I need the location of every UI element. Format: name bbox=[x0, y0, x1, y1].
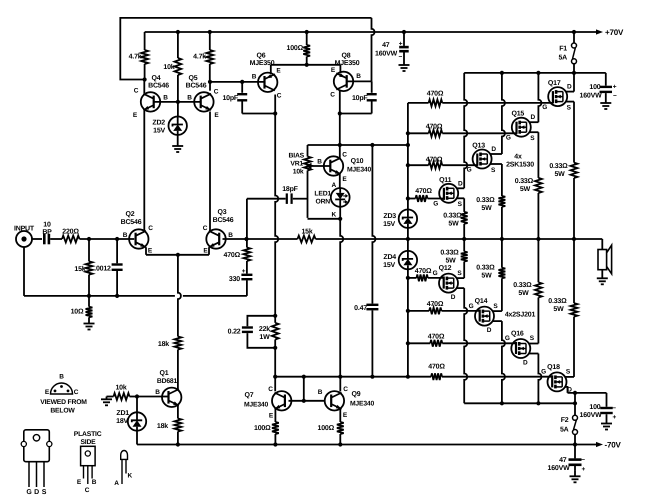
svg-text:PLASTIC: PLASTIC bbox=[74, 431, 102, 438]
ground below 100uF top cap bbox=[600, 98, 611, 110]
resistor 0.33R 5W Q16 bbox=[535, 239, 542, 298]
svg-text:C: C bbox=[134, 88, 139, 95]
svg-text:15k: 15k bbox=[301, 228, 312, 236]
svg-text:SIDE: SIDE bbox=[80, 439, 96, 446]
capacitor .0012 input bbox=[94, 239, 122, 296]
svg-text:B: B bbox=[187, 95, 192, 102]
capacitor 10pF Q8 bbox=[340, 81, 377, 113]
wire 18pF to Q3 base bbox=[247, 199, 286, 239]
wire Q11 drain to +rail bbox=[457, 73, 468, 188]
svg-text:D: D bbox=[451, 294, 456, 301]
wire Q12 drain to -bus bbox=[456, 288, 467, 403]
svg-text:B: B bbox=[59, 374, 64, 381]
ground below speaker bbox=[597, 270, 608, 285]
wire bias box top bbox=[308, 143, 408, 147]
wire Q1 base bbox=[135, 394, 169, 398]
capacitor 10pF Q6 bbox=[222, 82, 277, 116]
svg-text:−: − bbox=[398, 53, 402, 60]
svg-text:Q4: Q4 bbox=[152, 75, 161, 82]
svg-text:100: 100 bbox=[589, 84, 600, 91]
svg-text:18pF: 18pF bbox=[282, 186, 298, 193]
wire Q3 base / output rail left part bbox=[223, 237, 249, 241]
transistor Q1 BD681 bbox=[155, 370, 181, 407]
svg-text:10pF: 10pF bbox=[222, 95, 238, 102]
wire +70V sub-rail (drains) bbox=[464, 71, 606, 75]
ground below 47uF bottom cap bbox=[570, 470, 581, 482]
resistor 18k upper bbox=[158, 337, 181, 350]
svg-text:Q2: Q2 bbox=[126, 211, 135, 218]
resistor 100R VAS emitters bbox=[287, 32, 311, 65]
label 0.33R Q15 bbox=[515, 178, 534, 193]
MOSFET Q17 2SK1530 bbox=[542, 80, 572, 111]
wire output to speaker bbox=[601, 239, 603, 250]
svg-text:47: 47 bbox=[382, 42, 390, 49]
resistor 15k feedback bbox=[247, 228, 316, 243]
transistor Q10 MJE340 bbox=[317, 152, 371, 184]
svg-text:+: + bbox=[613, 84, 617, 91]
wire Q15 source to 0.33R bbox=[529, 132, 538, 178]
label 0.33R Q16 bbox=[513, 282, 532, 297]
resistor 470R gate Q18 bbox=[408, 363, 553, 380]
svg-text:G: G bbox=[469, 303, 474, 310]
svg-text:D: D bbox=[458, 180, 463, 187]
svg-text:MJE340: MJE340 bbox=[347, 167, 372, 174]
wire Q11 source to 0.33R bbox=[457, 198, 465, 212]
wire gate bus P bbox=[406, 276, 410, 379]
transistor Q3 BC546 bbox=[203, 209, 234, 255]
wire bias bottom to Q9 collector (hops output rail) bbox=[340, 219, 343, 377]
MOSFET Q13 2SK1530 bbox=[467, 143, 497, 174]
svg-text:100Ω: 100Ω bbox=[287, 45, 304, 52]
label 0.33R Q12 bbox=[440, 250, 459, 265]
svg-text:B: B bbox=[163, 95, 168, 102]
MOSFET Q15 2SK1530 bbox=[506, 111, 536, 142]
svg-text:160VW: 160VW bbox=[580, 412, 603, 419]
svg-text:Q5: Q5 bbox=[189, 75, 198, 82]
svg-text:10pF: 10pF bbox=[352, 95, 368, 102]
capacitor 100uF 160VW bottom bbox=[580, 393, 617, 421]
drawing TO-126 package bbox=[74, 431, 102, 494]
svg-text:ORN: ORN bbox=[315, 199, 330, 206]
svg-text:470Ω: 470Ω bbox=[428, 363, 445, 370]
svg-text:ZD1: ZD1 bbox=[116, 410, 129, 417]
zener ZD4 15V bbox=[383, 239, 417, 278]
svg-text:LED1: LED1 bbox=[314, 191, 331, 198]
svg-text:C: C bbox=[330, 92, 335, 99]
label 0.33R Q11 bbox=[443, 213, 462, 228]
ground below 10R bbox=[84, 317, 95, 329]
svg-text:Q16: Q16 bbox=[511, 331, 524, 338]
resistor 0.33R 5W Q11 bbox=[461, 212, 468, 239]
svg-text:A: A bbox=[332, 182, 337, 189]
svg-text:A: A bbox=[114, 480, 119, 487]
wire Q16 drain to -bus bbox=[529, 354, 542, 404]
label 0.33R Q18 bbox=[548, 298, 567, 313]
svg-text:C: C bbox=[74, 389, 79, 396]
svg-text:5W: 5W bbox=[448, 221, 459, 228]
resistor 470R gate Q15 bbox=[408, 123, 517, 136]
resistor 470R gate Q11 bbox=[408, 188, 445, 202]
svg-text:+: + bbox=[612, 414, 616, 421]
svg-text:G: G bbox=[433, 270, 438, 277]
svg-text:470Ω: 470Ω bbox=[427, 90, 444, 97]
svg-text:BIAS: BIAS bbox=[289, 153, 305, 160]
capacitor 100uF 160VW top bbox=[580, 73, 617, 100]
wire ground return bbox=[24, 247, 247, 298]
svg-text:220Ω: 220Ω bbox=[62, 229, 79, 236]
capacitor 10uF BP input bbox=[42, 222, 52, 245]
resistor 10k rail to bases bbox=[163, 32, 181, 102]
svg-text:4.7k: 4.7k bbox=[193, 53, 206, 61]
svg-text:Q17: Q17 bbox=[548, 80, 561, 87]
drawing TO-92 viewed from below bbox=[40, 374, 87, 415]
svg-text:D: D bbox=[531, 114, 536, 121]
ground at 10k bbox=[101, 397, 114, 406]
svg-text:C: C bbox=[277, 93, 282, 100]
wire Q10 emitter to LED bbox=[339, 175, 341, 189]
svg-text:Q7: Q7 bbox=[245, 392, 254, 399]
wire Q3 collector up to Q5 emitter bbox=[209, 112, 211, 232]
svg-text:5W: 5W bbox=[481, 205, 492, 212]
svg-text:5A: 5A bbox=[558, 54, 567, 61]
wire Q17 source to 0.33R bbox=[566, 102, 575, 163]
potentiometer VR1 10k BIAS bbox=[289, 145, 311, 218]
svg-text:K: K bbox=[128, 473, 133, 480]
transistor Q4 BC546 bbox=[133, 75, 169, 119]
speaker bbox=[598, 245, 612, 274]
svg-text:.0012: .0012 bbox=[94, 265, 111, 272]
svg-text:4x2SJ201: 4x2SJ201 bbox=[505, 312, 536, 319]
svg-text:MJE340: MJE340 bbox=[244, 402, 269, 409]
wire Q9 collector up bbox=[338, 375, 342, 392]
svg-text:10k: 10k bbox=[293, 169, 304, 176]
transistor Q6 MJE350 bbox=[250, 53, 282, 100]
svg-text:B: B bbox=[155, 389, 160, 396]
-70V arrow and label bbox=[596, 441, 621, 450]
svg-text:10k: 10k bbox=[163, 63, 174, 71]
resistor 470R gate Q13 bbox=[408, 157, 478, 169]
svg-text:B: B bbox=[123, 232, 128, 239]
zener ZD2 15V bbox=[152, 102, 187, 146]
fuse F2 5A bbox=[560, 403, 578, 444]
svg-text:BELOW: BELOW bbox=[50, 408, 75, 415]
svg-text:18V: 18V bbox=[116, 418, 128, 425]
MOSFET Q14 2SJ201 bbox=[469, 298, 499, 334]
svg-text:100Ω: 100Ω bbox=[254, 425, 271, 432]
svg-text:D: D bbox=[487, 327, 492, 334]
svg-text:D: D bbox=[567, 386, 572, 393]
svg-text:B: B bbox=[252, 74, 257, 81]
resistor 15k input shunt bbox=[74, 239, 92, 296]
svg-text:VIEWED FROM: VIEWED FROM bbox=[40, 399, 87, 406]
svg-text:4x: 4x bbox=[514, 154, 522, 161]
resistor 10k Q1 base bbox=[114, 384, 138, 400]
svg-text:100: 100 bbox=[589, 404, 600, 411]
LED LED1 ORN bbox=[314, 182, 349, 219]
svg-text:ZD2: ZD2 bbox=[152, 120, 165, 127]
svg-text:Q10: Q10 bbox=[351, 158, 364, 165]
svg-text:0.47: 0.47 bbox=[354, 305, 367, 312]
svg-text:5A: 5A bbox=[560, 426, 569, 433]
svg-text:G: G bbox=[433, 201, 438, 208]
svg-text:0.33Ω: 0.33Ω bbox=[548, 298, 567, 305]
wire 220R to Q2 base bbox=[80, 237, 135, 241]
svg-text:470Ω: 470Ω bbox=[427, 301, 444, 308]
svg-text:BC546: BC546 bbox=[148, 83, 169, 90]
resistor 470R gate Q16 bbox=[408, 334, 517, 347]
svg-text:-70V: -70V bbox=[605, 441, 622, 450]
resistor 0.33R 5W Q12 bbox=[461, 239, 468, 262]
svg-text:47: 47 bbox=[559, 457, 567, 464]
svg-text:470Ω: 470Ω bbox=[426, 123, 443, 130]
fuse F1 5A bbox=[558, 32, 576, 73]
label 0.33R Q13 bbox=[476, 197, 495, 212]
svg-text:G: G bbox=[541, 369, 546, 376]
svg-text:BC546: BC546 bbox=[186, 83, 207, 90]
svg-text:ZD4: ZD4 bbox=[383, 254, 396, 261]
wire cap to R 220 bbox=[50, 238, 62, 240]
resistor 220R bbox=[62, 229, 80, 243]
resistor 0.33R 5W Q14 bbox=[499, 239, 506, 278]
svg-text:0.33Ω: 0.33Ω bbox=[443, 213, 462, 220]
wire VR1 wiper to Q10 base bbox=[306, 163, 331, 169]
wire Q2 collector up to Q4 emitter bbox=[143, 111, 145, 232]
svg-text:+: + bbox=[242, 268, 246, 275]
svg-text:22k: 22k bbox=[259, 325, 270, 333]
svg-text:18k: 18k bbox=[158, 340, 169, 348]
wire Q7 base loop bbox=[275, 376, 304, 378]
svg-text:10: 10 bbox=[43, 222, 51, 229]
svg-text:INPUT: INPUT bbox=[14, 226, 35, 233]
svg-text:Q11: Q11 bbox=[439, 177, 452, 184]
svg-text:D: D bbox=[34, 489, 39, 496]
capacitor 330uF feedback bbox=[229, 268, 252, 296]
MOSFET Q18 2SJ201 bbox=[541, 364, 572, 393]
svg-text:470Ω: 470Ω bbox=[415, 188, 432, 195]
svg-text:+: + bbox=[581, 466, 585, 473]
svg-text:Q9: Q9 bbox=[352, 391, 361, 398]
svg-text:B: B bbox=[318, 389, 323, 396]
input jack J1 bbox=[14, 226, 35, 248]
resistor 470R feedback shunt bbox=[224, 239, 251, 274]
capacitor 18pF bbox=[282, 186, 307, 204]
svg-text:BD681: BD681 bbox=[157, 378, 178, 385]
svg-text:Q13: Q13 bbox=[472, 143, 485, 150]
resistor 470R gate Q12 bbox=[408, 268, 444, 281]
svg-text:K: K bbox=[332, 212, 337, 219]
svg-text:C: C bbox=[343, 386, 348, 393]
svg-text:Q6: Q6 bbox=[257, 53, 266, 60]
svg-text:D: D bbox=[491, 146, 496, 153]
svg-text:470Ω: 470Ω bbox=[415, 268, 432, 275]
svg-text:−: − bbox=[612, 405, 616, 412]
transistor Q8 MJE350 bbox=[330, 53, 361, 99]
wire 18k to Q1 collector bbox=[177, 350, 179, 390]
svg-text:MJE350: MJE350 bbox=[335, 60, 360, 67]
svg-text:C: C bbox=[268, 386, 273, 393]
svg-text:G: G bbox=[26, 489, 32, 496]
MOSFET Q11 2SK1530 bbox=[433, 177, 463, 208]
transistor Q9 MJE340 bbox=[318, 386, 375, 419]
wire Q2 emitter to Q3 emitter bbox=[146, 247, 209, 257]
wire Q17 drain to +rail bbox=[566, 73, 575, 92]
svg-text:0.22: 0.22 bbox=[228, 328, 241, 335]
wire Q6 collector chain bbox=[273, 95, 278, 318]
svg-text:5W: 5W bbox=[553, 306, 564, 313]
MOSFET Q16 2SJ201 bbox=[505, 331, 535, 367]
capacitor 47uF 160VW bottom bbox=[548, 445, 586, 474]
wire lower drive bus y377 bbox=[304, 376, 408, 378]
capacitor 0.47uF coupling (hops output rail) bbox=[354, 145, 378, 379]
svg-text:−: − bbox=[613, 93, 617, 100]
resistor 10R ground lift bbox=[71, 296, 93, 317]
resistor 470R gate Q14 bbox=[408, 301, 480, 314]
wire Q14 source to 0.33R bbox=[492, 278, 502, 311]
svg-text:BP: BP bbox=[42, 229, 52, 236]
svg-text:F1: F1 bbox=[559, 46, 567, 53]
svg-text:15k: 15k bbox=[74, 265, 85, 273]
wire Q18 drain to -bus bbox=[565, 387, 568, 393]
wire ZD1 to rail corner bbox=[136, 444, 138, 446]
svg-text:1W: 1W bbox=[259, 334, 270, 341]
svg-text:G: G bbox=[505, 335, 510, 342]
svg-text:0.33Ω: 0.33Ω bbox=[440, 250, 459, 257]
resistor 100R Q7 emitter bbox=[254, 409, 279, 445]
wire Q1 emitter to 18k lower bbox=[177, 405, 179, 418]
svg-text:MJE340: MJE340 bbox=[350, 401, 375, 408]
resistor 22k 1W bbox=[259, 316, 279, 350]
wire top feedback line bbox=[120, 18, 371, 82]
svg-text:160VW: 160VW bbox=[375, 51, 398, 58]
svg-text:470Ω: 470Ω bbox=[224, 252, 241, 259]
svg-text:B: B bbox=[356, 73, 361, 80]
svg-text:5W: 5W bbox=[554, 171, 565, 178]
label 0.33R Q14 bbox=[476, 265, 495, 280]
drawing TO-3P package bbox=[21, 430, 52, 496]
-70V rail bbox=[137, 442, 597, 446]
svg-text:G: G bbox=[542, 104, 547, 111]
+70V arrow and label bbox=[596, 28, 624, 37]
svg-text:470Ω: 470Ω bbox=[428, 334, 445, 341]
svg-text:C: C bbox=[148, 225, 153, 232]
capacitor 0.22uF bbox=[228, 316, 276, 348]
svg-text:Q3: Q3 bbox=[218, 209, 227, 216]
svg-text:2SK1530: 2SK1530 bbox=[506, 162, 534, 169]
svg-text:18k: 18k bbox=[157, 422, 168, 430]
ground below ZD2 bbox=[172, 146, 183, 152]
svg-text:0.33Ω: 0.33Ω bbox=[549, 163, 568, 170]
svg-text:5W: 5W bbox=[520, 186, 531, 193]
wire Q4 base to Q5 base bbox=[154, 100, 201, 104]
svg-text:5W: 5W bbox=[481, 273, 492, 280]
resistor 0.33R 5W Q15 bbox=[535, 178, 542, 239]
label 4x 2SK1530 bbox=[506, 154, 534, 169]
ground below 100uF bottom cap bbox=[601, 418, 612, 430]
label 0.33R Q17 bbox=[549, 163, 568, 178]
svg-text:+: + bbox=[399, 41, 403, 48]
svg-text:F2: F2 bbox=[561, 417, 569, 424]
svg-text:ZD3: ZD3 bbox=[383, 213, 396, 220]
svg-text:C: C bbox=[214, 89, 219, 96]
resistor 470R gate Q17 bbox=[408, 90, 554, 106]
resistor 0.33R 5W Q18 bbox=[571, 239, 578, 317]
wire 22k to Q7 bbox=[273, 348, 277, 392]
wire Q8 collector down to bias top bbox=[338, 91, 342, 146]
wire tail (hops ground wire) bbox=[178, 255, 181, 337]
wire gate bus N bbox=[406, 103, 410, 201]
svg-text:D: D bbox=[523, 359, 528, 366]
svg-text:100Ω: 100Ω bbox=[318, 425, 335, 432]
svg-text:B: B bbox=[92, 479, 97, 486]
wire Q14 drain to -bus bbox=[492, 321, 505, 403]
svg-text:15V: 15V bbox=[383, 262, 395, 269]
transistor Q2 BC546 bbox=[121, 211, 154, 255]
svg-text:BC546: BC546 bbox=[213, 217, 234, 224]
resistor 100R Q9 emitter bbox=[318, 409, 344, 445]
resistor 18k lower bbox=[157, 419, 181, 432]
wire output rail bbox=[316, 237, 603, 241]
label 4x 2SJ201 bbox=[505, 312, 536, 319]
wire Q13 drain to +rail bbox=[490, 73, 505, 154]
drawing LED package bbox=[114, 451, 132, 488]
wire Q8 emitter up bbox=[305, 63, 341, 73]
svg-text:B: B bbox=[317, 159, 322, 166]
svg-text:5W: 5W bbox=[445, 258, 456, 265]
svg-text:S: S bbox=[42, 489, 47, 496]
wire Q4 collector node bbox=[143, 80, 145, 94]
svg-text:Q8: Q8 bbox=[342, 53, 351, 60]
svg-text:160VW: 160VW bbox=[548, 465, 571, 472]
svg-text:15V: 15V bbox=[153, 128, 165, 135]
svg-text:0.33Ω: 0.33Ω bbox=[476, 265, 495, 272]
svg-text:Q1: Q1 bbox=[160, 370, 169, 377]
svg-text:470Ω: 470Ω bbox=[426, 157, 443, 164]
svg-text:5W: 5W bbox=[518, 290, 529, 297]
svg-text:Q12: Q12 bbox=[439, 265, 452, 272]
wire P drain bus bbox=[464, 401, 577, 405]
svg-text:10k: 10k bbox=[115, 384, 126, 392]
transistor Q7 MJE340 bbox=[244, 386, 291, 420]
vertical Q8 base from top line (hops +70V rail) bbox=[372, 18, 375, 82]
svg-text:VR1: VR1 bbox=[290, 161, 303, 168]
zener ZD3 15V bbox=[383, 199, 417, 240]
svg-text:BC546: BC546 bbox=[121, 219, 142, 226]
svg-text:G: G bbox=[467, 166, 472, 173]
svg-text:+70V: +70V bbox=[605, 28, 624, 37]
wire Q12 source to 0.33R bbox=[456, 262, 464, 279]
ground below 47uF cap bbox=[399, 65, 410, 71]
svg-text:15V: 15V bbox=[383, 221, 395, 228]
zener ZD1 18V bbox=[116, 397, 146, 445]
svg-text:C: C bbox=[203, 225, 208, 232]
svg-text:−: − bbox=[581, 457, 585, 464]
svg-text:330: 330 bbox=[229, 276, 240, 283]
svg-text:B: B bbox=[228, 232, 233, 239]
capacitor 47uF 160VW top bbox=[375, 32, 409, 65]
+70V rail bbox=[145, 30, 597, 34]
resistor 0.33R 5W Q13 bbox=[499, 196, 506, 239]
resistor 0.33R 5W Q17 bbox=[571, 163, 578, 239]
svg-text:Q18: Q18 bbox=[547, 364, 560, 371]
svg-text:G: G bbox=[506, 135, 511, 142]
wire Q10 collector bbox=[339, 145, 341, 158]
wire Q18 source to 0.33R bbox=[565, 317, 574, 377]
svg-text:Q14: Q14 bbox=[475, 298, 488, 305]
svg-text:4.7k: 4.7k bbox=[129, 53, 142, 61]
wire Q8 base bbox=[347, 80, 372, 82]
MOSFET Q12 2SJ201 bbox=[433, 265, 463, 301]
svg-text:0.33Ω: 0.33Ω bbox=[513, 282, 532, 289]
